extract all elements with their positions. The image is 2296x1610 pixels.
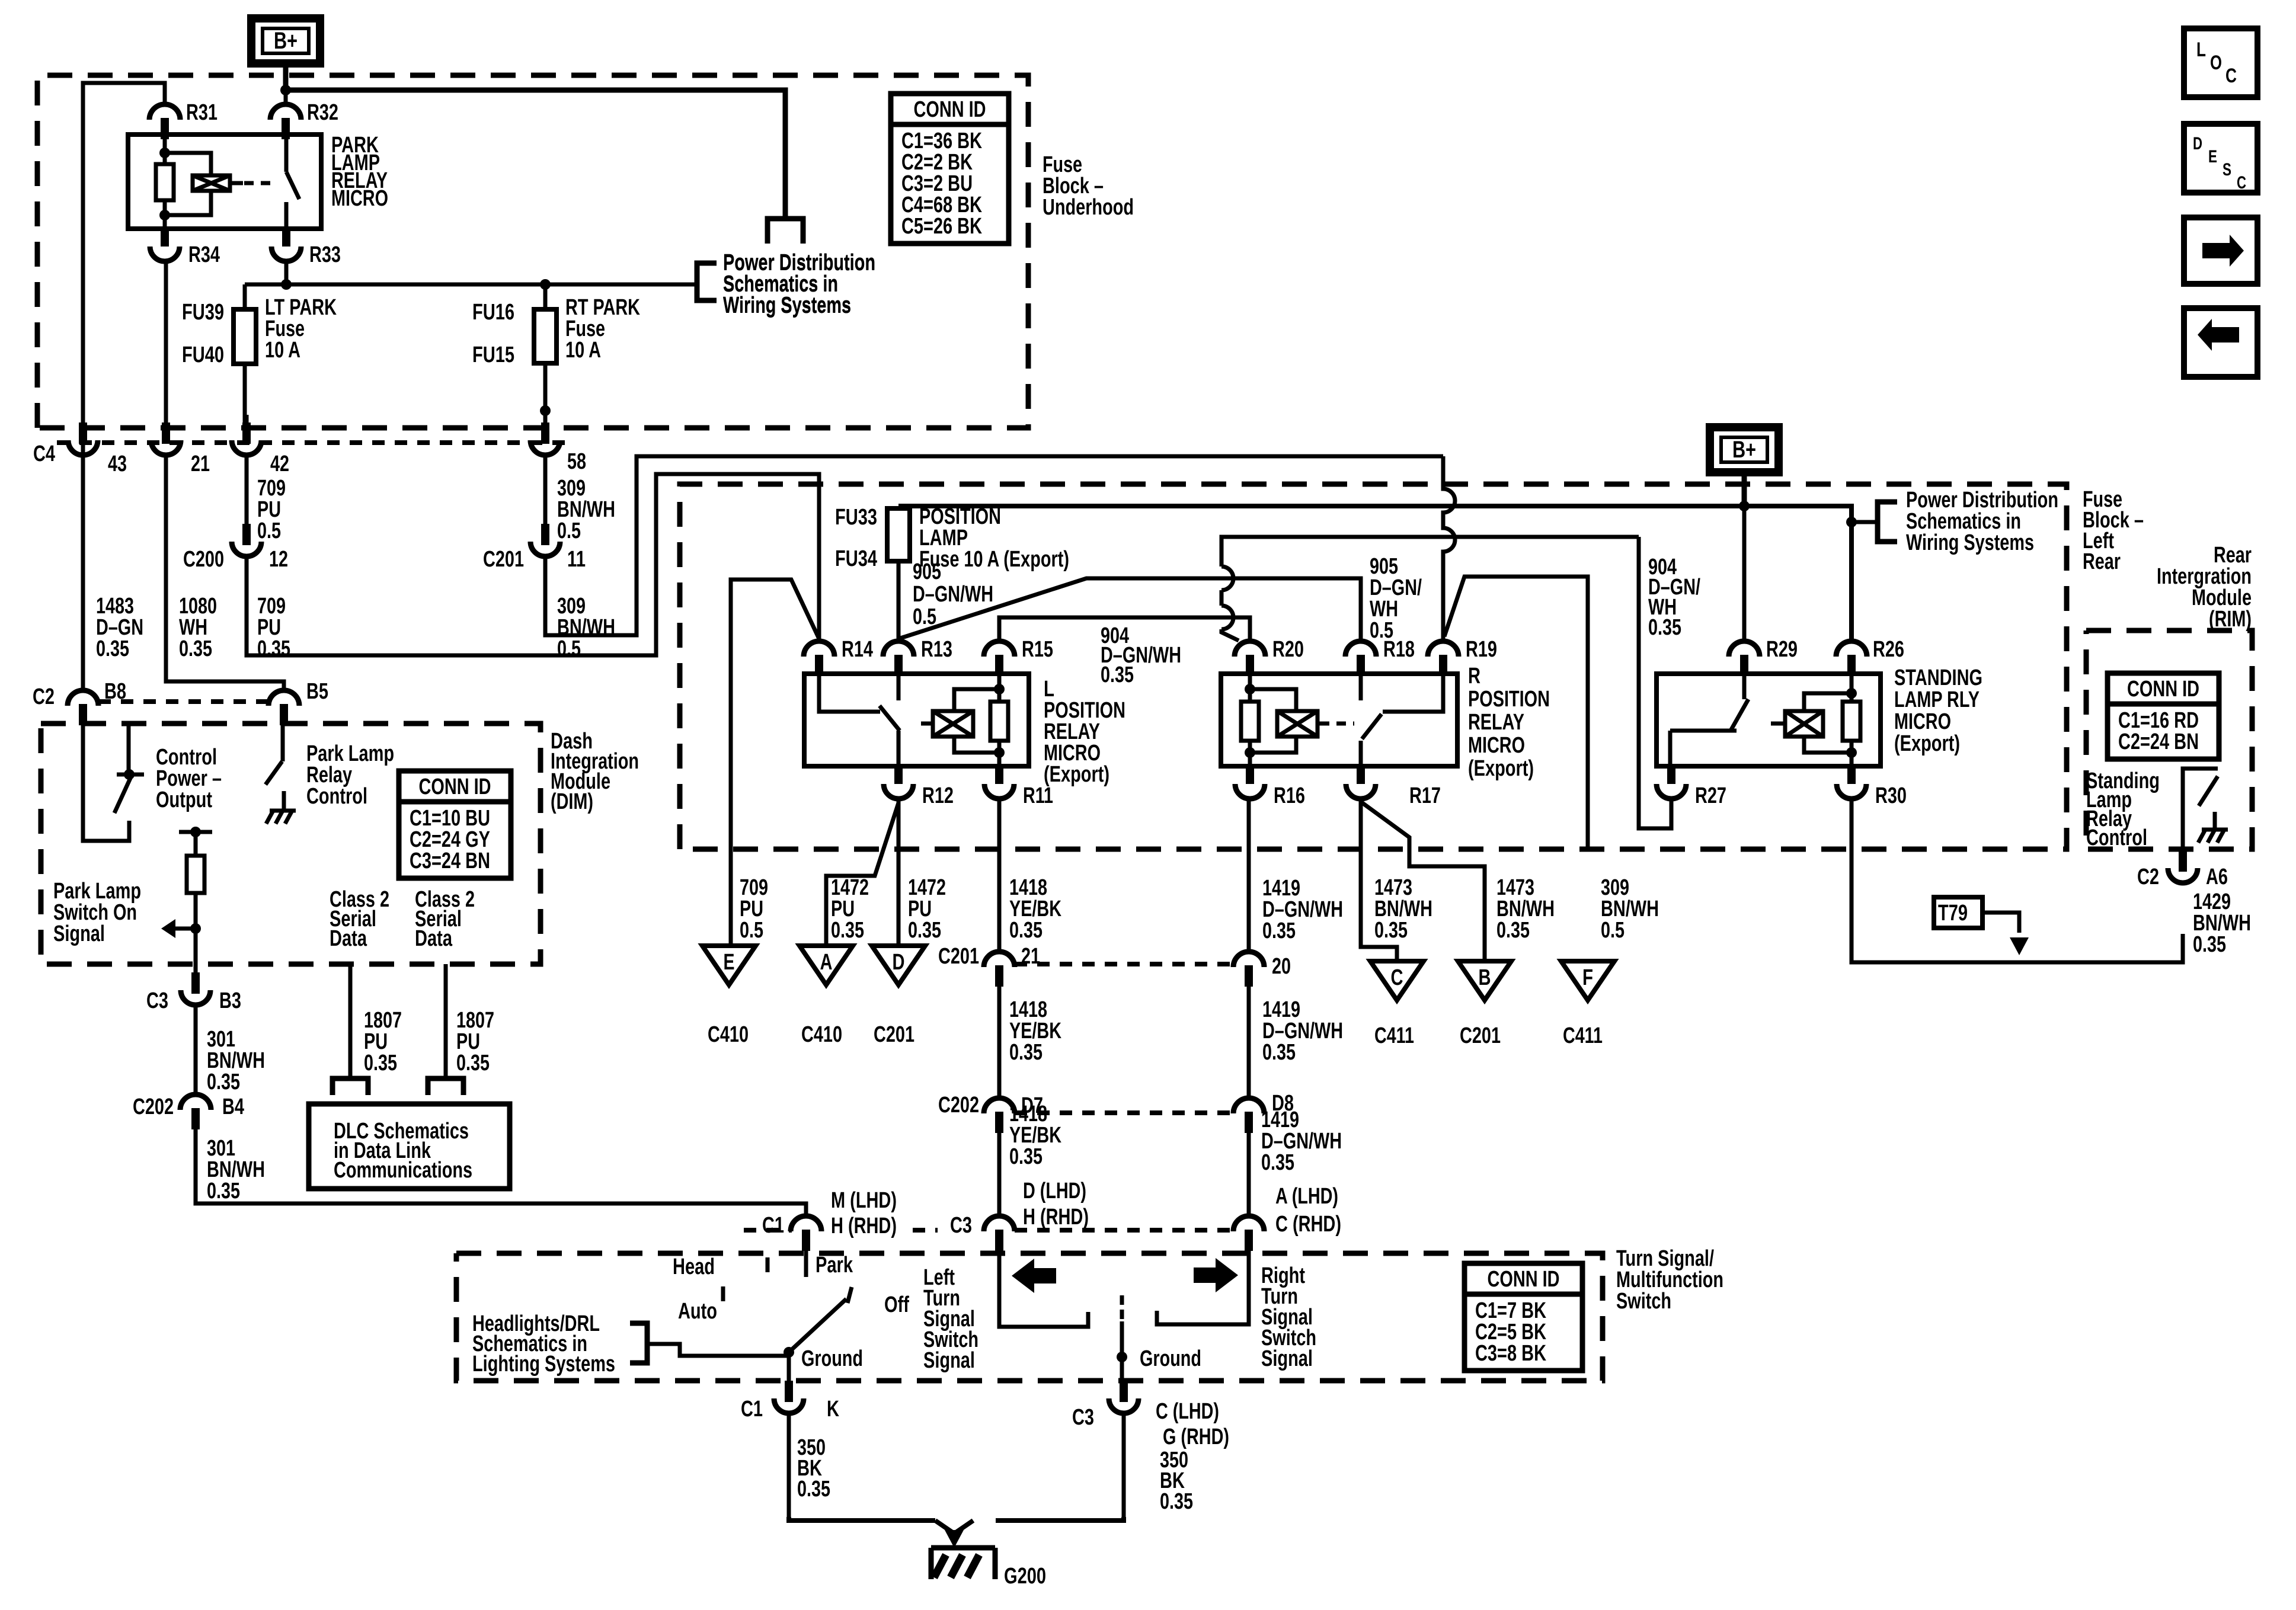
conn table - RIM CONN ID [2108,673,2219,759]
module box - Turn Signal Multifunction Switch (dashed) [456,1253,1603,1381]
connector pin R32 [270,104,301,120]
connector row C2 (dotted) [98,699,268,704]
wire - R19 drop with hops over B+ bus and 904 tie [1443,456,1455,640]
svg-text:21: 21 [191,452,210,476]
arrow - right turn [1194,1258,1238,1292]
connector pin R20 [1235,641,1265,657]
svg-text:Park: Park [816,1253,853,1278]
svg-text:R14: R14 [842,637,873,662]
svg-text:(Export): (Export) [1894,731,1960,756]
svg-text:FU40: FU40 [182,343,224,367]
wire - E riser to R14 [731,580,819,946]
wire - coil stub to switch link [230,181,243,185]
svg-text:K: K [827,1397,839,1422]
svg-text:Auto: Auto [678,1299,717,1324]
wire - fuse feed bus [245,283,697,287]
wire - RT fuse to pin 58 [543,363,548,424]
svg-text:C5=26 BK: C5=26 BK [901,214,982,239]
conn table - DIM CONN ID [399,771,511,878]
turn switch ground wiper [1120,1295,1124,1305]
svg-text:B: B [1479,965,1491,990]
connector row C201 (dotted) [1015,962,1233,966]
svg-text:20: 20 [1272,954,1291,979]
contact tick - Off [848,1287,852,1303]
svg-text:42: 42 [270,452,289,476]
connector pin R18 [1345,641,1376,657]
wire - B3 to C202 [194,1006,198,1093]
svg-text:0.35: 0.35 [179,636,212,661]
svg-text:10 A: 10 A [565,338,601,363]
svg-text:E: E [724,950,735,975]
svg-text:R20: R20 [1272,637,1304,662]
wire - relay coil left branch [163,135,167,164]
connector pin B8 [68,690,98,706]
svg-text:R30: R30 [1875,783,1907,808]
relay internals - standing lamp relay [1742,674,1747,699]
connector C200 pin 12 [242,524,251,545]
connector pin R14 [804,641,834,657]
svg-text:F: F [1582,965,1593,990]
fuse FU33/FU34 - POSITION LAMP [897,506,901,508]
svg-text:21: 21 [1021,944,1040,969]
svg-text:E: E [2208,147,2217,167]
connector pin R34 [161,229,169,247]
svg-text:Data: Data [330,926,367,951]
wire - RT fuse top lead [543,284,548,309]
svg-text:0.35: 0.35 [207,1179,240,1204]
svg-text:0.35: 0.35 [1496,918,1530,943]
relay - L POSITION RELAY MICRO box [804,674,1029,766]
svg-text:Fuse 10 A (Export): Fuse 10 A (Export) [919,547,1069,572]
svg-text:Wiring Systems: Wiring Systems [723,293,851,318]
fuse FU39/FU40 - LT PARK [234,309,256,364]
svg-text:M (LHD): M (LHD) [831,1188,897,1213]
wire - 309 spur to F triangle drop [1444,577,1588,849]
svg-text:Switch: Switch [1616,1289,1671,1314]
module box - Fuse Block Underhood (dashed) [37,75,1028,428]
svg-text:G (RHD): G (RHD) [1163,1425,1229,1449]
node - coil bottom [159,210,170,220]
connector C1/K [785,1381,793,1402]
svg-text:G200: G200 [1004,1564,1046,1589]
right turn signal contact [1157,1250,1249,1324]
connector pin R33 [282,229,290,247]
headlamp switch - park contact [804,1251,808,1277]
svg-text:FU34: FU34 [835,546,877,571]
module box - Rear Integration Module (dashed) [2086,630,2252,849]
svg-text:10 A: 10 A [265,338,300,363]
connector C202 pin D8 [1233,1098,1264,1113]
conn table - underhood CONN ID [891,94,1009,244]
legend box DESC [2184,124,2257,193]
svg-text:C3=8 BK: C3=8 BK [1475,1341,1546,1366]
svg-text:0.5: 0.5 [1601,918,1625,943]
connector C1 M/H - headlamp switch park feed [791,1216,821,1231]
arrow - park lamp switch on signal (left) [174,927,196,931]
svg-text:R32: R32 [307,100,338,125]
connector pin R11 [995,766,1003,784]
module box - Fuse Block Left Rear (dashed) [680,484,2067,849]
svg-text:Head: Head [673,1254,715,1279]
svg-text:CONN ID: CONN ID [2127,677,2199,702]
switch blade - headlamp switch [789,1299,846,1352]
svg-text:R: R [1468,664,1480,689]
triangle connector E [702,946,756,985]
svg-text:0.35: 0.35 [1648,615,1681,640]
wire 905 - fuse to R13 [897,561,901,640]
svg-text:C3=24 BN: C3=24 BN [410,849,490,873]
bracket - power distribution callout (fuse bus) [697,263,717,300]
wire 1472 - R12 spur to A triangle [826,803,898,946]
connector C202/B4 [180,1094,211,1110]
node - R33 / fuse bus [281,279,292,290]
svg-text:L: L [2196,39,2206,61]
wire - switch common down to C1 K [787,1352,791,1381]
legend box arrow left [2184,308,2257,377]
connector C3 C/G [1120,1381,1128,1402]
svg-text:Wiring Systems: Wiring Systems [1906,530,2034,555]
svg-text:C3: C3 [146,988,168,1013]
svg-text:(DIM): (DIM) [551,789,593,814]
conn table - turn signal CONN ID [1464,1263,1582,1371]
svg-text:MICRO: MICRO [1468,733,1525,758]
svg-text:0.35: 0.35 [1261,1150,1294,1175]
fuse FU16/FU15 - RT PARK [534,309,557,363]
svg-text:0.35: 0.35 [456,1051,490,1076]
svg-text:FU15: FU15 [472,343,514,367]
ground - park lamp relay control [270,809,296,813]
switch - relay contact [284,135,289,172]
svg-text:Signal: Signal [923,1348,975,1373]
bracket - power distribution callout (left rear) [1878,502,1897,542]
svg-text:Control: Control [306,784,367,809]
svg-text:C3: C3 [950,1213,972,1238]
wire 1473 - R17 to C triangle [1361,798,1397,961]
contact tick - Auto [721,1286,725,1301]
connector pin 43 [79,422,87,444]
wire - resistor bottom to box [163,200,167,229]
svg-text:0.35: 0.35 [1101,662,1134,687]
svg-text:Output: Output [156,788,212,812]
wire - B8 to control power output contact [83,723,129,841]
wire - resistor to arrow node [194,893,198,964]
wire 905 - diagonal from R13 to R18 [898,578,1361,640]
svg-text:Lighting Systems: Lighting Systems [472,1352,615,1377]
wire - R34 down to pin 21 [164,261,168,424]
connector pin 21 [162,422,170,444]
svg-text:B3: B3 [219,988,241,1013]
svg-text:FU39: FU39 [182,300,224,325]
svg-text:STANDING: STANDING [1894,665,1982,690]
triangle connector D [872,946,925,985]
svg-text:R19: R19 [1466,637,1497,662]
svg-text:B+: B+ [274,28,298,54]
wire - T79 arrow to ground run [1982,913,2019,933]
wire - B+ bus right to R26 riser [1744,506,1851,640]
svg-text:58: 58 [567,449,586,474]
svg-text:S: S [2223,160,2231,180]
wire - D7 to C3 D [997,1131,1002,1215]
svg-text:R11: R11 [1023,783,1053,808]
switch - Park Lamp Relay Control [266,761,282,785]
svg-text:H (RHD): H (RHD) [1023,1205,1089,1230]
node - headlamp switch common [784,1347,794,1358]
connector pin R26 [1836,641,1867,657]
triangle connector C [1370,961,1424,1000]
page cap - DLC entry right [428,1078,463,1095]
svg-text:C2=24 BN: C2=24 BN [2118,729,2199,754]
connector pin R17 [1357,766,1365,784]
wire 1419 - R16 down to C201 20 [1247,798,1251,950]
svg-text:0.35: 0.35 [1262,918,1296,943]
svg-text:0.35: 0.35 [1374,918,1408,943]
svg-text:C4: C4 [33,441,55,466]
svg-text:R31: R31 [186,100,218,125]
ground - RIM switch [2202,828,2228,832]
connector pin R13 [883,641,914,657]
svg-text:R18: R18 [1383,637,1415,662]
wire - 904 tie down to R27 [1639,537,1671,828]
node - RT fuse lower tap [540,405,551,416]
svg-text:MICRO: MICRO [1894,709,1951,734]
tag T79 [1934,897,1982,928]
svg-text:LAMP RLY: LAMP RLY [1894,687,1980,712]
svg-text:C411: C411 [1374,1023,1414,1048]
svg-text:0.5: 0.5 [257,518,281,543]
connector pin R30 [1847,766,1856,784]
svg-text:B8: B8 [104,679,126,704]
svg-text:(Export): (Export) [1044,762,1109,787]
contact tick - Head [766,1257,770,1272]
left turn signal contact [999,1250,1088,1327]
connector pin R15 [984,641,1015,657]
svg-text:C201: C201 [938,944,979,969]
svg-text:Rear: Rear [2083,549,2121,574]
connector C2/A6 [2179,850,2187,872]
connector pin R16 [1246,766,1254,784]
svg-text:0.35: 0.35 [908,918,941,943]
connector C201 pin 20 [1233,952,1264,967]
svg-text:Underhood: Underhood [1043,195,1134,220]
svg-text:A: A [820,950,833,975]
svg-text:0.35: 0.35 [207,1070,240,1094]
svg-text:B4: B4 [222,1094,244,1119]
wire 301 BN/WH - B4 to turn signal switch C1 [196,1129,806,1215]
wire - B+ down to bus [1742,472,1747,506]
svg-text:RELAY: RELAY [1468,710,1524,735]
svg-text:C410: C410 [801,1022,842,1047]
svg-text:C2: C2 [2137,865,2159,889]
svg-text:Control: Control [2086,825,2147,850]
svg-text:C3: C3 [1072,1405,1094,1430]
svg-text:D (LHD): D (LHD) [1023,1179,1086,1204]
svg-text:C: C [1391,965,1403,990]
svg-text:Signal: Signal [53,921,105,946]
svg-text:0.5: 0.5 [557,636,581,661]
connector pin 42 [242,422,251,444]
ground bus (dashed) to G200 [789,1517,933,1521]
svg-text:R13: R13 [921,637,952,662]
svg-text:0.35: 0.35 [2193,932,2226,957]
triangle connector A [800,946,853,985]
connector pin R27 [1667,766,1675,784]
node - B+ left rear splice [1739,501,1750,511]
svg-text:C: C [2225,65,2237,87]
svg-text:CONN ID: CONN ID [914,97,986,122]
wire 709 PU - pin 42 down [245,456,249,524]
box - DLC Schematics in Data Link Communications [309,1104,510,1189]
wire - R31 feed from pin 43 column [83,83,165,457]
svg-text:Signal: Signal [1261,1346,1313,1371]
svg-text:C411: C411 [1563,1023,1603,1048]
svg-text:T79: T79 [1938,901,1968,926]
connector pin B5 [268,690,299,706]
svg-text:R26: R26 [1873,637,1904,662]
connector C202 pin D7 [984,1098,1015,1113]
resistor - park lamp switch on signal [187,856,204,893]
svg-text:C1: C1 [762,1213,784,1238]
connector row C202 (dotted) [1015,1110,1233,1115]
connector pin R12 [894,766,903,784]
connector C3/B3 [194,964,198,972]
coil - relay winding symbol [193,175,230,191]
wire - LT fuse to pin 42 [243,364,247,424]
bracket - headlights/DRL callout [630,1323,647,1363]
svg-text:R17: R17 [1409,783,1441,808]
wire - B5 to park lamp relay control switch [281,723,285,761]
switch - standing lamp relay control in RIM [2183,769,2218,849]
svg-text:A6: A6 [2206,865,2228,889]
connector row C1/C3 (dotted) [744,1228,792,1233]
svg-text:0.35: 0.35 [257,636,290,661]
connector pin R29 [1729,641,1760,657]
svg-text:0.35: 0.35 [1160,1489,1193,1514]
svg-text:11: 11 [567,547,586,572]
legend box LOC [2184,28,2257,97]
wire - B+ bus to power distribution page reference [286,90,785,219]
wire - R33 down to fuse bus [284,261,289,284]
svg-text:R29: R29 [1766,637,1798,662]
page reference cap (Power Distribution) [768,219,803,244]
svg-text:0.35: 0.35 [831,918,864,943]
wire 904 - R15/R20 tie [999,617,1250,640]
svg-text:0.35: 0.35 [96,636,129,661]
svg-text:0.35: 0.35 [1262,1040,1296,1065]
svg-text:Ground: Ground [1140,1346,1201,1371]
mechanical link (dashed) [244,181,276,185]
terminal bar - park lamp switch signal [179,830,212,834]
wire - D8 to A [1247,1131,1251,1215]
wire 1418 - R11 down to C201 21 [997,798,1002,950]
wire 1080 WH - pin 21 to B5 [166,456,284,690]
relay internals - R position relay [1248,674,1252,702]
svg-text:FU33: FU33 [835,505,877,530]
triangle connector F [1561,961,1614,1000]
connector pin R31 [149,104,180,120]
svg-text:C2: C2 [33,684,55,709]
wire - 20 to D8 [1247,984,1251,1097]
wire 309 BN/WH - C201/11 to top bus [545,456,1443,635]
svg-text:C201: C201 [1460,1023,1501,1048]
connector pin R19 [1428,641,1459,657]
arrow - ground drop [952,1534,957,1538]
svg-text:R33: R33 [309,242,341,267]
svg-text:(Export): (Export) [1468,756,1534,781]
wire - LT fuse top lead [243,284,247,309]
svg-text:0.35: 0.35 [797,1477,830,1502]
svg-text:C200: C200 [183,547,224,572]
connector C201 pin 11 [541,524,549,545]
relay K - PARK LAMP RELAY MICRO box [128,135,321,229]
wire - R29 from B+ splice [1742,506,1747,640]
arrow - left turn [1012,1259,1056,1293]
wire 709 PU - C200/12 to R14 riser [247,474,819,655]
wire - B+ down to junction [283,63,289,90]
svg-text:C201: C201 [483,547,524,572]
svg-text:C410: C410 [708,1022,749,1047]
svg-text:0.35: 0.35 [1009,1040,1043,1065]
wire - B+ bus to position lamp fuse [898,504,1744,508]
switch - Control Power Output [127,724,131,774]
svg-text:D: D [893,950,905,975]
svg-text:R27: R27 [1695,783,1726,808]
wire 1472 - R12 to D triangle [897,798,901,946]
node - RT fuse tap [540,279,551,290]
svg-text:0.35: 0.35 [1009,918,1043,943]
svg-text:C202: C202 [133,1094,174,1119]
svg-text:12: 12 [269,547,288,572]
page cap - DLC entry left [332,1078,368,1095]
svg-text:C: C [2237,173,2246,193]
wire - 21 to D7 [997,984,1002,1097]
connector C3 D/H - left turn [984,1216,1015,1231]
node - arrow tap [190,923,201,934]
svg-text:43: 43 [108,452,127,476]
wire 1473 - R17 spur to B triangle [1361,802,1485,961]
power terminal B+ (underhood feed) [251,18,320,63]
wire 904 - R20 riser to R27 tie with hops [1221,537,1639,641]
svg-text:0.5: 0.5 [557,518,581,543]
connector row C4 (dotted) [57,440,569,445]
svg-text:C1: C1 [741,1397,763,1422]
node - power distribution tap [1846,517,1857,527]
ground G200 [929,1548,934,1579]
connector C201 pin 21 [984,952,1015,967]
wire - tap to callout [1851,520,1878,524]
legend box arrow right [2184,217,2257,284]
svg-text:H (RHD): H (RHD) [831,1214,897,1238]
svg-text:R15: R15 [1022,637,1053,662]
svg-text:C (RHD): C (RHD) [1275,1212,1341,1237]
svg-text:C (LHD): C (LHD) [1156,1399,1219,1424]
wire 350 BK - C1 K to ground bus [787,1414,791,1521]
svg-text:0.5: 0.5 [740,918,763,943]
svg-text:R34: R34 [188,242,220,267]
triangle connector B [1458,961,1511,1000]
svg-text:0.35: 0.35 [1009,1144,1043,1169]
wire 1429 - R30 to RIM A6 [1851,798,2183,962]
relay - STANDING LAMP RLY MICRO box [1657,674,1881,766]
relay - R POSITION RELAY MICRO box [1221,674,1457,766]
ground splice vee [935,1521,973,1534]
wire - class 2 serial data left [348,964,353,1078]
svg-text:Ground: Ground [801,1346,863,1371]
wire - coil parallel loop [165,153,211,175]
svg-text:POSITION: POSITION [1468,687,1550,712]
module box - Dash Integration Module DIM (dashed) [41,724,541,964]
relay internals - L position relay [819,674,880,712]
wire - R32 from B+ splice [284,90,288,103]
